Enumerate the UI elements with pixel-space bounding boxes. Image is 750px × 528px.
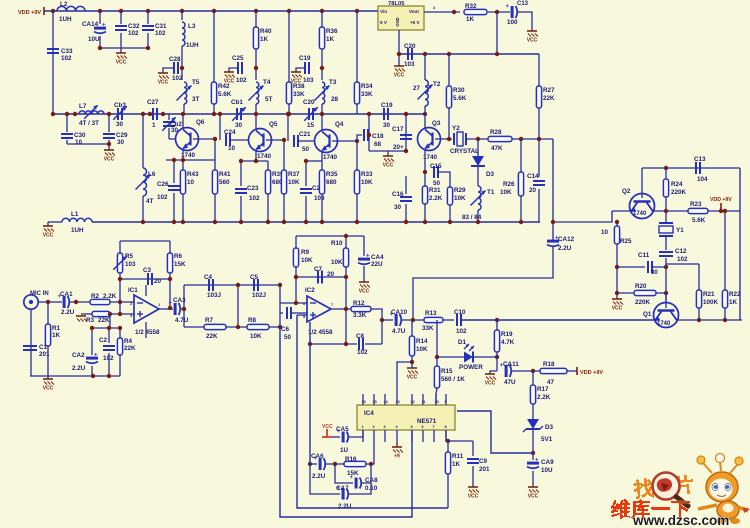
wire Q4 base bias stub [332,141,357,170]
svg-text:1U: 1U [340,447,349,454]
transistor Q4 [315,121,344,161]
wire GND pin drop [398,30,400,66]
resistor R31 [422,186,442,222]
wire C18 box left [368,114,370,151]
svg-text:3.3K: 3.3K [353,312,367,319]
svg-text:30: 30 [235,122,243,129]
wire left branch down from rail [52,11,54,114]
svg-text:VCC: VCC [359,289,370,295]
svg-text:R34: R34 [361,83,373,90]
svg-text:2.2U: 2.2U [61,309,75,316]
junction dot varactor node [476,137,480,141]
svg-text:1K: 1K [52,332,61,339]
svg-text:R30: R30 [453,87,465,94]
wire R36 to C19a node [321,49,323,80]
resistor R32 [464,3,487,23]
tuned coil T1 (adjustable) [462,186,495,221]
wire R12 to CA10 [371,309,382,344]
svg-text:1K: 1K [452,461,461,468]
capacitor C23 [235,185,260,202]
wire L3 branch [181,11,183,20]
wire C18 feed [357,135,362,141]
resistor R22 [722,290,741,320]
svg-text:VCC: VCC [485,381,496,387]
svg-text:R17: R17 [537,386,549,393]
wire C18 box right [405,114,407,151]
power label VDD +9V (top left) [18,7,44,16]
capacitor CA11 [500,361,520,386]
wire fb bottom row [120,278,170,280]
wire CA12 lower [413,246,553,320]
wire gnd stub [120,48,122,53]
svg-text:102: 102 [103,355,114,362]
wire C29 bottom [108,140,110,144]
svg-text:VCC: VCC [383,163,394,169]
svg-text:11: 11 [422,400,426,404]
ground VCC (C28) [158,73,169,86]
wire Q6 emitter [182,150,184,160]
svg-text:1740: 1740 [657,321,671,327]
trimmer capacitor C20 (15) [303,99,318,129]
svg-text:10K: 10K [454,195,466,202]
wire filter right column [279,285,281,327]
junction dots R28 right [519,137,541,141]
svg-text:VCC: VCC [394,73,405,79]
svg-text:50: 50 [433,180,441,187]
svg-text:T2: T2 [433,81,441,88]
junction dot CA1 out [74,300,78,304]
wire L3 to T5 [181,46,183,80]
junction dot R42 bottom [212,112,216,116]
ground VCC (R14) [407,368,418,381]
wire C22 bottom [305,196,307,222]
trimmer capacitor Cb1 [231,99,246,129]
capacitor C25 [232,55,247,84]
svg-text:100: 100 [507,19,518,26]
svg-text:VCC: VCC [43,233,54,239]
watermark mascot [697,454,750,525]
transistor Q5 [249,121,278,160]
wire C32 bottom [120,33,122,48]
svg-text:R4: R4 [124,338,133,345]
wire CA14 drop [99,11,101,24]
svg-text:30: 30 [394,204,402,211]
wire R11 top [445,430,447,441]
wire C26 bottom [173,193,175,222]
svg-text:20+: 20+ [393,144,404,151]
capacitor C1 [23,344,50,358]
svg-text:Y1: Y1 [676,227,684,234]
IC4 top pin numbers [362,400,447,404]
svg-text:30: 30 [651,270,658,276]
wire T2 to Q3 node [424,106,426,114]
svg-text:+: + [366,254,370,260]
wire Q3 base to crystal [435,138,452,140]
junction dot VDD tick [719,209,723,213]
capacitor C20 (103) [404,43,416,68]
svg-text:VCC: VCC [468,494,479,500]
svg-text:MIC IN: MIC IN [30,291,49,297]
svg-text:102: 102 [157,194,168,201]
wire filter in split low [183,309,185,327]
svg-text:R43: R43 [187,171,199,178]
svg-text:C7: C7 [314,266,323,273]
svg-text:R6: R6 [174,253,183,260]
svg-text:C19: C19 [299,55,311,62]
svg-text:POWER: POWER [459,364,483,371]
wire rail left segment [48,221,62,223]
svg-text:R23: R23 [690,201,702,208]
wire C28 left [163,68,173,73]
svg-text:10U: 10U [541,467,553,474]
wire osc row left [612,210,631,212]
capacitor CA12 [547,236,575,253]
resistor R11 [445,441,463,474]
junction dot R24 top [664,166,668,170]
wire IC2 plus jog [297,314,307,316]
wire C11 row [617,266,645,268]
resistor R6 [167,241,186,279]
junction dot R25 top [615,220,619,224]
wire Q5 emitter row [241,160,268,162]
svg-text:C11: C11 [638,252,650,259]
svg-text:C12: C12 [675,248,687,255]
svg-text:www.dzsc.com: www.dzsc.com [632,513,729,528]
tuned coil T3 (adjustable) [315,79,339,104]
svg-text:R33: R33 [361,171,373,178]
svg-text:CA2: CA2 [72,352,85,359]
wire R3 to IC1+ [110,313,134,315]
wire Q5 base branch [219,114,221,140]
resistor R13 [422,310,443,332]
wire L6 top [142,114,144,168]
svg-text:GND: GND [395,17,400,26]
svg-text:VDD +9V: VDD +9V [580,370,603,376]
capacitor CA7 [336,485,352,510]
svg-text:VCC: VCC [158,80,169,86]
wire R2 to IC1- [110,301,134,303]
svg-text:VDD +9V: VDD +9V [710,197,732,203]
svg-text:30: 30 [116,121,124,128]
svg-text:R15: R15 [441,368,453,375]
junction dots C18 box [367,112,408,153]
svg-text:C13: C13 [694,156,706,163]
wire bias row [92,327,120,329]
svg-text:16: 16 [362,400,366,404]
svg-text:102: 102 [236,77,247,84]
wire R25 bottom [616,244,618,299]
svg-text:C9: C9 [479,458,488,465]
junction dot R17 tap [531,369,535,373]
junction dots on top rail [51,9,359,13]
capacitor C29 [103,132,128,146]
svg-text:C16: C16 [392,191,404,198]
svg-text:22K: 22K [543,95,555,102]
wire R23 right [708,210,740,212]
junction dot R14 bottom [410,360,414,364]
svg-text:27: 27 [413,85,421,92]
svg-text:L1: L1 [71,211,79,218]
svg-text:L6: L6 [148,171,156,178]
svg-text:R41: R41 [219,171,231,178]
svg-text:102: 102 [61,55,72,62]
capacitor C24 [224,129,236,152]
svg-text:2.2U: 2.2U [338,503,352,510]
ground VCC (C17 box) [383,156,394,169]
wire Q1 base column [665,293,667,308]
svg-text:IC4: IC4 [364,410,374,417]
svg-text:560 / 1K: 560 / 1K [441,376,465,383]
svg-text:10: 10 [228,145,236,152]
svg-text:C1: C1 [39,344,48,351]
wire R21 R22 bottom row [677,319,742,321]
capacitor C14 [527,173,545,194]
svg-text:L7: L7 [79,103,87,110]
svg-text:10K: 10K [331,259,343,266]
svg-text:103J: 103J [207,292,222,299]
svg-text:28: 28 [331,96,339,103]
wire C19a left [296,68,304,72]
wire C7 row [296,276,346,278]
svg-text:20: 20 [327,271,335,278]
svg-text:C28: C28 [169,56,181,63]
resistor R12 [351,300,371,319]
svg-text:5V1: 5V1 [541,436,553,443]
wire crystal to R28 [466,138,488,140]
wire alc feedback left [397,362,412,394]
capacitor CA10 [390,309,408,335]
svg-text:10K: 10K [416,346,428,353]
capacitor C18 (68) [364,129,384,148]
resistor R30 [446,54,466,139]
wire mic out [38,301,62,303]
trimmer capacitor Cb3 [113,102,127,128]
wire R19 bottom [496,352,498,371]
svg-text:47U: 47U [504,379,516,386]
svg-text:R32: R32 [465,3,477,10]
wire Q5 emitter [255,151,257,161]
svg-text:50: 50 [302,146,310,153]
inductor L2 [57,1,85,23]
svg-text:R1: R1 [52,325,61,332]
svg-text:10K: 10K [250,333,262,340]
wire IC1 out [159,308,173,310]
svg-text:201: 201 [39,351,50,358]
junction dots R25 column [615,265,619,295]
capacitor C19 (coupling 30) [381,102,393,129]
ground VCC (C25) [224,72,235,85]
svg-text:Cb1: Cb1 [231,99,243,106]
wire R13 to C10 [443,319,454,321]
wire R38 drop [288,11,290,82]
wire Y1 to C12 [665,236,667,250]
junction dots filter [236,283,282,329]
svg-text:CA7: CA7 [336,485,349,492]
junction dot CA6 left [308,462,312,466]
svg-text:C24: C24 [224,129,236,136]
wire R32 to C13 [488,11,510,13]
wire IC1 power stub bottom [145,322,147,338]
ground +9 (IC4) [392,442,403,460]
svg-text:220K: 220K [635,299,651,306]
wire node to Y1 [665,211,667,223]
wire R40 drop [255,11,257,27]
resistor R28 [488,129,512,152]
junction dots C8 row [308,342,348,346]
wire R16 to pin [366,442,374,464]
op-amp IC2 [303,287,334,336]
wire mixer out vertical [552,139,554,240]
IC4 top pins [363,394,446,405]
svg-text:1UH: 1UH [71,227,84,234]
capacitor C5 [250,274,267,299]
capacitor CA8 [350,475,379,492]
junction dots decoupling [98,46,150,50]
wire CA1 to R2 [70,301,90,303]
junction dot R11 top [446,439,450,443]
resistor R42 [211,82,231,114]
svg-text:2.2U: 2.2U [72,365,86,372]
junction dots rail [141,220,523,224]
svg-text:C31: C31 [155,23,167,30]
wire R14 bottom [411,356,413,364]
IC4 bottom pins [363,430,446,442]
ground VCC (CA11 row) [485,374,496,387]
svg-text:R37: R37 [288,171,300,178]
svg-text:7: 7 [433,425,435,429]
wire decoupling common [100,47,148,49]
wire CA8 left [335,464,353,483]
svg-text:VCC: VCC [116,60,127,66]
wire fb to minus node [119,279,121,302]
svg-text:R20: R20 [635,283,647,290]
LED D1 POWER [437,339,497,371]
junction dot Q3 base R30 [447,137,451,141]
wire C26 drop [173,160,175,183]
wire filter in split [183,285,185,309]
svg-text:Q6: Q6 [196,119,205,126]
junction dots Q5 stage [218,112,286,163]
svg-text:R8: R8 [248,317,257,324]
svg-text:C26: C26 [157,181,169,188]
crystal Y2 [450,125,479,155]
svg-text:R24: R24 [671,181,683,188]
svg-text:IC1: IC1 [128,287,138,294]
svg-text:R21: R21 [703,291,715,298]
wire tank box right [108,114,110,132]
wire D3 to T1 [477,166,479,186]
resistor R16 [344,456,366,477]
resistor R37 [281,170,300,222]
capacitor CA5 [336,426,349,454]
svg-text:2.2K: 2.2K [429,195,443,202]
svg-text:47: 47 [547,379,555,386]
wire L6 bottom [142,196,144,222]
svg-text:Q4: Q4 [335,121,344,128]
svg-text:C20: C20 [303,99,315,106]
zener diode D3 (5V1) [523,419,554,443]
junction dot C25 tap [254,66,258,70]
transistor Q3 [418,120,441,161]
svg-text:1/2 4558: 1/2 4558 [308,329,333,336]
wire IC2 minus feed [280,302,307,304]
wire C15 to R29 [439,172,450,187]
junction dot L6 tap [141,112,145,116]
svg-text:1UH: 1UH [186,42,199,49]
capacitor CA6 [311,453,326,480]
svg-text:R9: R9 [301,249,310,256]
wire filter bottom row [184,326,281,328]
resistor R39 [265,161,284,222]
svg-text:78L05: 78L05 [388,1,405,7]
wire R36 drop [321,11,323,27]
svg-text:Cb3: Cb3 [114,102,126,109]
svg-text:2: 2 [373,425,375,429]
svg-text:R16: R16 [345,456,357,463]
transistor Q2 [622,188,655,219]
wire IF bus [53,113,425,115]
resistor R23 [688,201,708,224]
svg-text:15: 15 [307,122,315,129]
svg-text:C20: C20 [404,43,416,50]
svg-text:C13: C13 [517,1,529,7]
svg-text:CA14: CA14 [82,21,99,28]
svg-text:5.6K: 5.6K [692,217,706,224]
resistor R21 [696,264,718,320]
wire R21 top row [666,263,699,265]
junction dots audio line [411,318,499,322]
svg-text:1: 1 [158,302,161,307]
svg-text:102: 102 [677,256,688,263]
watermark text 维库一下 [611,499,690,519]
svg-text:+: + [506,4,510,10]
wire T4 to IF bus [255,104,257,114]
wire rail gnd stub [47,222,49,226]
svg-text:10K: 10K [500,189,512,196]
resistor R33 [354,170,373,222]
junction dot bus T2 [423,112,427,116]
resistor R14 [409,320,428,356]
junction dots IC2 top [294,234,348,311]
resistor R34 [354,82,373,114]
svg-text:VCC: VCC [104,157,115,163]
svg-text:R28: R28 [490,129,502,136]
wire R34 drop [356,11,358,82]
svg-text:Y2: Y2 [452,125,460,132]
svg-text:C2: C2 [99,337,108,344]
capacitor C28 [169,56,183,82]
capacitor C22 [300,185,325,202]
svg-text:C3: C3 [143,267,152,274]
power symbol VCC (CA5) [322,424,333,437]
svg-text:1UH: 1UH [59,16,72,23]
svg-text:22K: 22K [98,317,110,324]
svg-text:5.6K: 5.6K [453,95,467,102]
svg-text:C21: C21 [299,131,311,138]
svg-text:CRYSTAL: CRYSTAL [450,148,479,155]
resistor R3 [86,311,110,324]
wire CA3 out [181,308,184,310]
wire Q4 collector [321,114,323,131]
svg-text:3T: 3T [192,96,200,103]
svg-text:4T: 4T [146,198,154,205]
junction dot zener CA9 [531,451,535,455]
wire varactor drop [477,139,479,156]
capacitor CA3 [169,297,189,324]
svg-text:Q5: Q5 [269,121,278,128]
svg-text:CA9: CA9 [541,459,554,466]
wire C25 left [229,68,237,72]
